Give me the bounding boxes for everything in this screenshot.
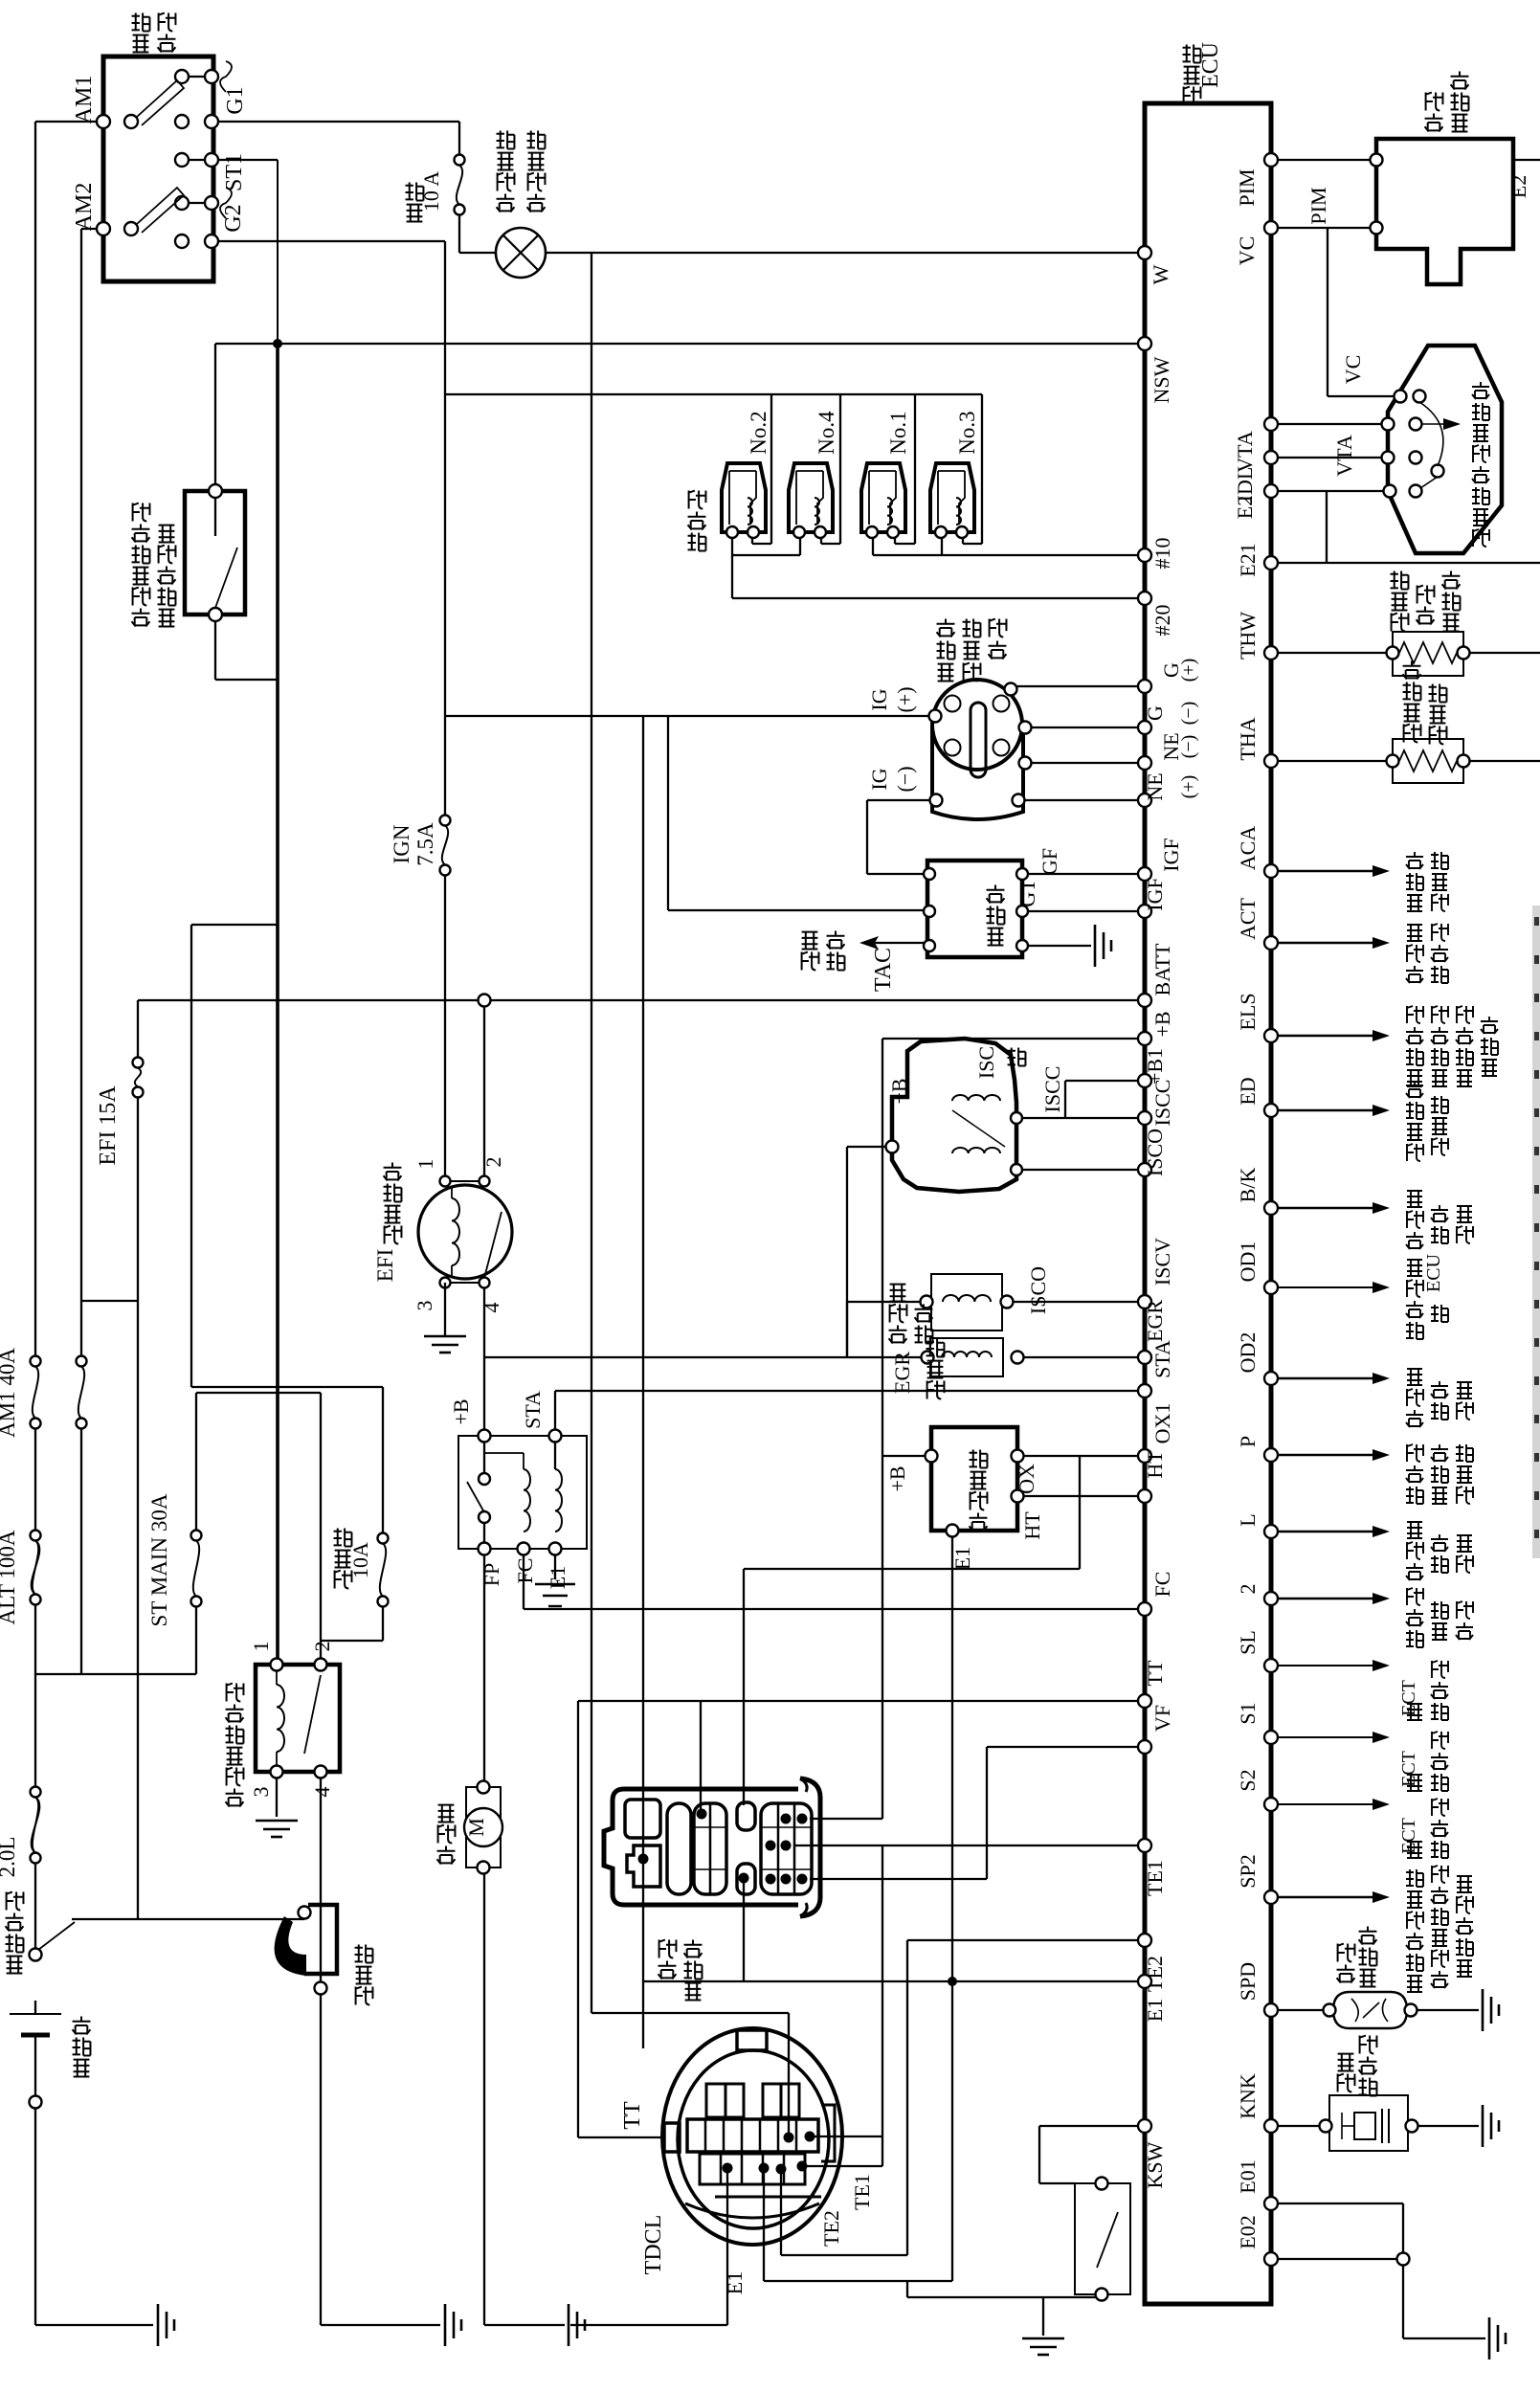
wire OX1 branch to check connector: [1079, 1456, 1081, 1569]
svg-text:ISCV: ISCV: [1150, 1238, 1174, 1286]
wire neutral switch bottom leg: [214, 615, 216, 680]
wire THA sensor: [1271, 760, 1393, 762]
svg-text:ISCC: ISCC: [1040, 1066, 1064, 1113]
TDCL left tab: [664, 2123, 680, 2152]
wire left column battery chain: [34, 1423, 36, 1535]
svg-text:(+): (+): [893, 686, 917, 712]
svg-text:ECT: ECT: [1398, 1818, 1419, 1854]
pin ISCC (ECU left): [1138, 1111, 1151, 1125]
TDCL right bracket: [821, 2105, 835, 2161]
wire EFI relay pin4 +B output: [483, 1283, 485, 1436]
label knock sensor: [1338, 2074, 1355, 2092]
arrow output ED: [1271, 1109, 1374, 1111]
svg-text:10A: 10A: [348, 1542, 372, 1578]
wire injector group 2-4 link: [731, 537, 733, 598]
ECU box: [1145, 103, 1271, 2304]
wire bus to ECU #20: [732, 597, 1145, 599]
wire ignition row5 to IG vertical: [212, 240, 445, 242]
pin NE (ECU left): [1138, 794, 1151, 807]
svg-text:ST1: ST1: [222, 153, 247, 191]
wire SPD sensor: [1271, 2009, 1329, 2011]
arrow output SL: [1271, 1665, 1374, 1666]
svg-text:OX: OX: [1015, 1464, 1038, 1494]
pin FC (ECU left): [1138, 1602, 1151, 1616]
svg-text:ED: ED: [1236, 1077, 1260, 1105]
wire VC branch to throttle sensor: [1327, 228, 1328, 396]
svg-text:EFI 15A: EFI 15A: [96, 1085, 121, 1166]
pin KNK (ECU right): [1264, 2119, 1278, 2133]
starter relay box: [256, 1665, 340, 1772]
label injectors: [688, 533, 706, 551]
pin E21 (ECU right): [1264, 556, 1278, 570]
pin SL (ECU right): [1264, 1659, 1278, 1672]
svg-text:S2: S2: [1236, 1769, 1260, 1791]
node E0 connector circle: [1397, 2253, 1410, 2266]
wire PIM sensor: [1271, 159, 1376, 161]
wire vacuum sensor E2 to page edge: [1513, 159, 1540, 161]
diagnosis switch box: [1075, 2183, 1130, 2294]
wire FC from relay to ECU: [523, 1549, 524, 1609]
label distributor: [938, 664, 954, 682]
svg-text:B/K: B/K: [1236, 1168, 1260, 1203]
label check connector: [658, 1961, 677, 1979]
svg-text:4: 4: [480, 1303, 503, 1313]
svg-text:ST MAIN 30A: ST MAIN 30A: [147, 1493, 171, 1626]
fuse starter 10A: [378, 1533, 389, 1544]
svg-text:KSW: KSW: [1143, 2141, 1167, 2188]
svg-text:7.5A: 7.5A: [413, 822, 437, 866]
pin IGF (ECU left): [1138, 867, 1151, 881]
svg-text:E21: E21: [1236, 543, 1260, 576]
wire AM1 from ignition switch to left bus: [35, 121, 103, 123]
label coolant temp sensor: [1392, 614, 1409, 632]
pin E1 (ECU left): [1138, 1975, 1151, 1988]
svg-text:1: 1: [249, 1642, 273, 1652]
svg-text:E2: E2: [1507, 175, 1530, 198]
check connector slot L: [627, 1845, 660, 1887]
figure caption strip at page edge: [1532, 906, 1540, 1558]
svg-text:P: P: [1236, 1436, 1260, 1447]
fuse instrument 10A: [455, 155, 465, 166]
injector No.1: [861, 463, 905, 532]
svg-text:1: 1: [413, 1159, 437, 1170]
text to neutral start switch (2): [1406, 1630, 1423, 1647]
svg-text:GF: GF: [1038, 848, 1061, 875]
pin TT (ECU left): [1138, 1694, 1151, 1708]
fuel pump: [466, 1787, 501, 1867]
pin G (ECU left): [1138, 721, 1151, 734]
starter pinion symbol: [299, 1907, 311, 1919]
svg-text:E1: E1: [723, 2271, 747, 2294]
wire oxygen sensor HT to ECU: [1017, 1495, 1145, 1497]
ground EFI relay: [424, 1335, 466, 1338]
svg-text:SL: SL: [1236, 1630, 1260, 1655]
check connector slot small bottom: [737, 1864, 755, 1894]
TDCL connector: [662, 2028, 842, 2245]
neutral start switch box: [185, 491, 245, 615]
svg-text:(−): (−): [1178, 735, 1199, 759]
pin E02 (ECU right): [1264, 2252, 1278, 2266]
wire FP to fuel pump: [483, 1549, 485, 1787]
label neutral start switch: [132, 609, 150, 627]
injector No.2: [722, 463, 766, 532]
wire IG feed down to IGN fuse: [444, 394, 446, 816]
svg-text:IGF: IGF: [1159, 838, 1183, 871]
wire E2 throttle: [1271, 490, 1388, 492]
svg-text:PIM: PIM: [1306, 187, 1330, 224]
pin B/K (ECU right): [1264, 1201, 1278, 1215]
distributor pins: [929, 710, 942, 723]
circuit opening relay box: [458, 1436, 587, 1549]
pin ISCO (ECU left): [1138, 1163, 1151, 1176]
oxygen sensor box: [931, 1427, 1017, 1531]
svg-text:ECU: ECU: [1198, 42, 1223, 88]
wire starter relay pin4 to starter and ground: [320, 1772, 322, 2325]
arrow output S2: [1271, 1803, 1374, 1805]
fuse EFI 15A: [133, 1058, 144, 1068]
vacuum sensor box: [1376, 139, 1513, 284]
svg-text:OX1: OX1: [1150, 1403, 1174, 1444]
svg-text:+B: +B: [887, 1078, 911, 1104]
TDCL top tab: [737, 2030, 767, 2050]
pin TE1 (ECU left): [1138, 1839, 1151, 1852]
label vacuum sensor: [1425, 114, 1443, 132]
svg-text:(+): (+): [1178, 659, 1199, 682]
label main fusible link 2.0L: [7, 1957, 23, 1974]
wire TE2 net: [907, 1939, 1145, 1941]
wire oxygen sensor +B stub: [882, 1455, 931, 1457]
wire TE1 net: [794, 1845, 1145, 1846]
svg-text:2: 2: [310, 1642, 334, 1652]
wire relay E1 to ground: [554, 1549, 556, 1579]
text from fuel monitor (ED): [1407, 1144, 1423, 1161]
svg-text:OD2: OD2: [1236, 1332, 1260, 1374]
svg-text:ISCC: ISCC: [1150, 1080, 1174, 1127]
wire diagnosis switch bottom to ground bus: [1101, 2294, 1103, 2297]
svg-text:E02: E02: [1236, 2215, 1260, 2248]
arrow output L: [1271, 1531, 1374, 1532]
svg-text:AM1 40A: AM1 40A: [0, 1348, 19, 1438]
wire injector group 1-3 bus to ECU #10: [872, 537, 874, 555]
wire oxygen sensor OX to ECU OX1: [1017, 1455, 1145, 1457]
check connector terminal dots: [697, 1809, 707, 1820]
svg-text:AM2: AM2: [72, 183, 97, 232]
fuse AM1 40A: [31, 1356, 41, 1367]
EGR vacuum valve: [930, 1338, 1003, 1376]
check connector slot tall: [667, 1803, 691, 1894]
wire E21 to page edge: [1271, 562, 1540, 564]
svg-text:No.2: No.2: [747, 411, 770, 454]
pin HT (ECU left): [1138, 1489, 1151, 1503]
arrow output OD2: [1271, 1377, 1374, 1379]
svg-text:PIM: PIM: [1235, 168, 1259, 206]
wire IG(-) distributor to igniter: [867, 799, 936, 801]
ground fuel pump: [568, 2304, 570, 2346]
battery disconnect blade: [30, 1949, 42, 1961]
wire starter relay pin3 to ground: [276, 1772, 278, 1817]
wire STA from circuit opening relay to ECU: [555, 1390, 1145, 1392]
pin KSW (ECU left): [1138, 2119, 1151, 2133]
arrow output BK: [1271, 1207, 1374, 1209]
svg-text:HT: HT: [1143, 1450, 1167, 1479]
svg-text:STA: STA: [521, 1391, 545, 1429]
throttle position sensor: [1388, 346, 1502, 553]
svg-text:E1: E1: [1143, 1999, 1167, 2022]
wire starter fuse 10A branch: [191, 924, 278, 926]
wire E02 to ground: [1271, 2258, 1403, 2260]
pin ACA (ECU right): [1264, 864, 1278, 878]
pin SP2 (ECU right): [1264, 1890, 1278, 1904]
pin P (ECU right): [1264, 1448, 1278, 1462]
pin ACT (ECU right): [1264, 936, 1278, 950]
wire KNK sensor: [1271, 2125, 1326, 2127]
svg-text:L: L: [1236, 1513, 1260, 1526]
svg-text:S1: S1: [1236, 1702, 1260, 1724]
svg-text:E2: E2: [1233, 496, 1257, 519]
svg-text:No.4: No.4: [815, 411, 838, 455]
pin THW (ECU right): [1264, 646, 1278, 660]
svg-text:2.0L: 2.0L: [0, 1837, 19, 1878]
text to overdrive switch (OD2): [1406, 1410, 1423, 1427]
svg-text:+B: +B: [449, 1398, 473, 1424]
label throttle position sensor: [1473, 529, 1489, 547]
arrow output 2: [1271, 1598, 1374, 1599]
wire battery feed EFI15A to ECU BATT: [138, 999, 1145, 1001]
svg-text:E1: E1: [546, 1566, 569, 1589]
svg-text:+B: +B: [885, 1465, 909, 1491]
wire TT net ECU to check connector and TDCL: [578, 1700, 1145, 1702]
svg-text:TT: TT: [1143, 1660, 1167, 1686]
svg-text:(−): (−): [893, 766, 917, 792]
svg-text:No.3: No.3: [955, 411, 979, 454]
pin ISCV (ECU left): [1138, 1295, 1151, 1308]
text to injection mode select switch (P): [1406, 1487, 1423, 1504]
AC idle-up valve: [931, 1274, 1002, 1331]
EFI main relay: [418, 1185, 512, 1279]
wire fuel pump to ground: [483, 1867, 485, 2325]
svg-text:ACT: ACT: [1236, 897, 1260, 940]
wire VC sensor: [1271, 227, 1376, 229]
svg-text:VTA: VTA: [1233, 431, 1257, 473]
arrow output S1: [1271, 1736, 1374, 1738]
svg-text:ECT: ECT: [1398, 1751, 1419, 1787]
svg-text:THW: THW: [1236, 612, 1260, 660]
svg-text:#20: #20: [1150, 605, 1174, 637]
wire EFI relay pin2 to battery wire: [483, 1007, 485, 1181]
wire igniter IGF2 to ECU: [1022, 910, 1145, 912]
svg-text:IG: IG: [867, 768, 891, 790]
intake air temp sensor: [1393, 739, 1463, 783]
battery symbol: [10, 2013, 61, 2015]
label ignition switch: [133, 35, 149, 53]
wire AM2 fuse chain: [80, 1423, 82, 1674]
check connector body: [604, 1789, 798, 1905]
label vacuum valve: [927, 1381, 945, 1399]
check connector slot triple: [761, 1803, 812, 1894]
injector No.3: [930, 463, 974, 532]
pin VTA (ECU right): [1264, 417, 1278, 431]
wire long vertical E1 test line: [642, 715, 644, 2048]
wire IG(+) to distributor and igniter: [445, 715, 935, 717]
coolant temp sensor: [1393, 632, 1463, 676]
wire ISCV to ECU: [1007, 1301, 1145, 1303]
wire distributor NE- to ECU: [1018, 799, 1145, 801]
svg-text:E1: E1: [950, 1547, 974, 1570]
svg-text:+B1: +B1: [1143, 1048, 1167, 1085]
ground knock sensor: [1482, 2105, 1484, 2147]
label igniter: [988, 928, 1004, 946]
text to neutral start switch (L): [1406, 1563, 1423, 1580]
pin W (ECU left): [1138, 246, 1151, 259]
pin ED (ECU right): [1264, 1104, 1278, 1117]
svg-text:E01: E01: [1236, 2159, 1260, 2193]
node E1 junction dot: [948, 1977, 957, 1986]
fusible link 2.0L: [31, 1787, 41, 1798]
arrow output ELS: [1271, 1035, 1374, 1037]
pin #10 (ECU left): [1138, 548, 1151, 562]
pin S1 (ECU right): [1264, 1731, 1278, 1744]
pin BATT (ECU left): [1138, 994, 1151, 1007]
wire distributor G2 to ECU: [1025, 727, 1145, 728]
arrow output SP2: [1271, 1896, 1374, 1898]
wire +B branch to ISC valve: [846, 1147, 848, 1357]
wire +B line from relay to EGR valve and ECU EGR: [484, 1356, 927, 1358]
label engine ECU: [1184, 87, 1201, 105]
svg-text:IGN: IGN: [390, 824, 413, 863]
pin TE2 (ECU left): [1138, 1934, 1151, 1947]
svg-text:M: M: [464, 1818, 488, 1837]
knock sensor: [1329, 2095, 1408, 2151]
text to ECT solenoid (S1): [1407, 1775, 1422, 1791]
svg-text:ELS: ELS: [1236, 993, 1260, 1030]
wire igniter ground leg: [1022, 945, 1091, 947]
node harness connector on BATT wire: [479, 995, 491, 1007]
ignition switch box: [103, 56, 213, 281]
pin SPD (ECU right): [1264, 2003, 1278, 2017]
svg-text:10 A: 10 A: [419, 171, 443, 212]
pin VC (ECU right): [1264, 221, 1278, 235]
pin OD2 (ECU right): [1264, 1372, 1278, 1385]
wire AM2 from ignition switch to left bus: [81, 228, 103, 230]
speed sensor: [1333, 1992, 1407, 2028]
svg-text:TT: TT: [620, 2101, 645, 2130]
svg-text:2: 2: [1236, 1584, 1260, 1595]
fuse IGN 7.5A: [440, 816, 451, 826]
pin #20 (ECU left): [1138, 592, 1151, 605]
pin NE (ECU left): [1138, 756, 1151, 770]
svg-text:FP: FP: [480, 1563, 503, 1586]
wire VTA: [1271, 423, 1388, 425]
svg-text:EGR: EGR: [1143, 1300, 1167, 1342]
pin G (ECU left): [1138, 680, 1151, 693]
ignition switch AM2 contact set: [97, 222, 110, 235]
label speed sensor: [1337, 1965, 1355, 1983]
ground battery: [157, 2304, 160, 2346]
svg-text:EFI: EFI: [373, 1249, 397, 1283]
svg-text:(−): (−): [1178, 702, 1199, 726]
svg-text:SP2: SP2: [1236, 1854, 1260, 1888]
fuse ST MAIN 30A: [191, 1531, 202, 1541]
svg-text:EGR: EGR: [890, 1352, 914, 1394]
wire distributor G1 to ECU: [1011, 685, 1145, 687]
text to cruise control ECU (OD1): [1406, 1322, 1423, 1339]
wire fuse to warning lamp: [458, 214, 460, 253]
pin ELS (ECU right): [1264, 1029, 1278, 1042]
label AC idle-up valve: [889, 1326, 907, 1344]
node NSW junction dot: [273, 339, 282, 348]
ignition switch AM1 contact set: [97, 115, 110, 128]
svg-text:3: 3: [413, 1301, 436, 1311]
wire igniter IGF to ECU: [1022, 873, 1145, 875]
label fuel pump: [437, 1846, 456, 1865]
wire TDCL E1 pin drop to ground bus: [726, 2168, 728, 2325]
svg-text:TE1: TE1: [850, 2174, 874, 2210]
pin VF (ECU left): [1138, 1740, 1151, 1754]
svg-text:TE1: TE1: [1143, 1860, 1167, 1896]
wire EFI fuse column: [137, 1000, 139, 1057]
svg-text:W: W: [1149, 264, 1172, 284]
svg-text:THA: THA: [1236, 717, 1260, 760]
svg-text:ISC: ISC: [974, 1046, 998, 1079]
wire long vertical W test line: [591, 253, 592, 2013]
svg-text:ACA: ACA: [1236, 826, 1260, 871]
pin OX1 (ECU left): [1138, 1449, 1151, 1463]
label starter: [356, 1987, 373, 2005]
wire NSW horizontal to ECU: [215, 343, 1145, 345]
throttle sensor contacts: [1395, 391, 1407, 403]
wire check connector E1 drop: [743, 1878, 745, 1981]
wire injector riser no3: [981, 394, 983, 544]
wire instrument fuse feed from switch: [212, 121, 459, 123]
TDCL pin grid middle: [687, 2119, 818, 2152]
check connector slot double: [694, 1803, 726, 1894]
svg-text:No.1: No.1: [886, 411, 910, 454]
wire W lamp to ECU: [546, 252, 1145, 254]
svg-text:FC: FC: [1150, 1572, 1174, 1598]
pin +B1 (ECU left): [1138, 1074, 1151, 1087]
arrow output ACA: [1271, 870, 1374, 872]
label instrument fuse: [407, 205, 423, 222]
wire E1 bus to ECU: [643, 1980, 1145, 1982]
wire injector riser no4: [839, 394, 841, 544]
wire VF net to check connector: [987, 1746, 1145, 1748]
svg-text:HT: HT: [1020, 1511, 1044, 1540]
ground E01 E02: [1488, 2317, 1491, 2359]
label check engine warning lamp: [497, 194, 515, 212]
svg-text:NSW: NSW: [1149, 356, 1173, 403]
svg-text:ISCO: ISCO: [1026, 1266, 1050, 1314]
svg-text:STA: STA: [1150, 1340, 1174, 1378]
ISC valve body: [892, 1039, 1016, 1192]
arrow output OD1: [1271, 1286, 1374, 1288]
arrow output ACT: [1271, 942, 1374, 944]
svg-text:ECU: ECU: [1423, 1253, 1444, 1292]
warning lamp check engine: [496, 228, 546, 278]
svg-text:+B: +B: [1150, 1011, 1174, 1037]
ground starter relay: [256, 1820, 298, 1823]
ground relay E1: [535, 1583, 575, 1585]
wire distributor NE+ to ECU: [1025, 762, 1145, 764]
wire injector riser no1: [914, 394, 916, 544]
wire E2-E21 tie: [1326, 491, 1328, 563]
wire TAC arrow from igniter: [869, 942, 929, 944]
ground diagnosis bus: [1022, 2337, 1064, 2340]
pin IGF (ECU left): [1138, 905, 1151, 918]
svg-text:ECT: ECT: [1398, 1680, 1419, 1716]
pin STA (ECU left): [1138, 1384, 1151, 1398]
text to ECT solenoid (SL): [1407, 1704, 1422, 1720]
arrow output P: [1271, 1454, 1374, 1456]
